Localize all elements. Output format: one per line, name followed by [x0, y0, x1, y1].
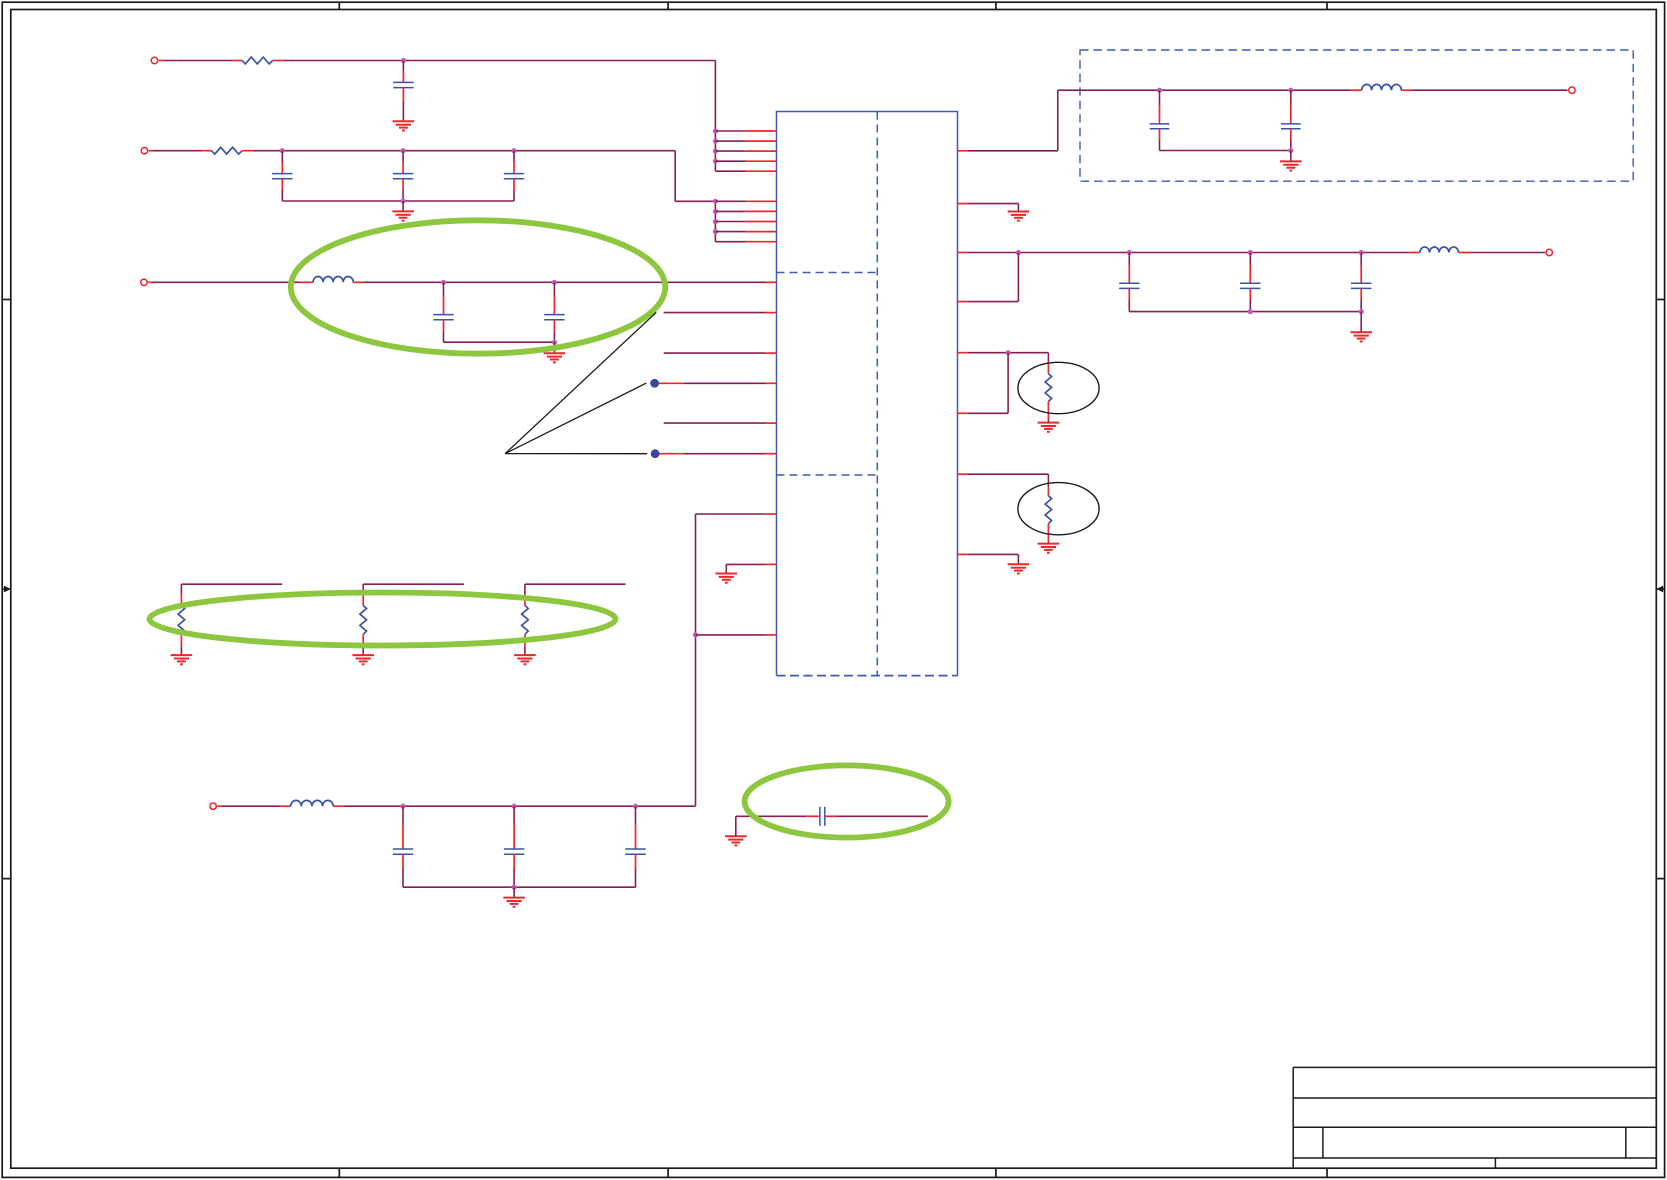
- wire q3 row: [968, 252, 1409, 254]
- wire P1 to R1: [159, 60, 164, 62]
- IC left pin wire F: [696, 513, 766, 515]
- IC left pins group1: [715, 130, 745, 132]
- ground for row2: [402, 201, 404, 211]
- center mark arrow right: [1656, 588, 1664, 590]
- wire L5 to port P5: [1412, 89, 1568, 91]
- node C8 junction: [511, 804, 516, 809]
- IC U1 internal dashed divider horizontal upper: [777, 272, 878, 274]
- ground for q3 rail: [1360, 312, 1362, 333]
- IC U1 outline: [777, 112, 958, 676]
- dashed option box: [1080, 50, 1633, 181]
- wire q1 to dashed box: [968, 150, 1058, 152]
- node C5 junction: [441, 280, 446, 285]
- title block: [1292, 1067, 1294, 1168]
- IC left pin wire H: [696, 634, 766, 636]
- wire P2 to R2: [149, 150, 154, 152]
- row2 ground rail wire: [282, 200, 514, 202]
- wire P3 to L3: [148, 281, 153, 283]
- ground for C1: [393, 120, 415, 122]
- row3 ground rail wire: [444, 341, 555, 343]
- node C11 junction: [1157, 88, 1162, 93]
- node C1 junction: [401, 58, 406, 63]
- IC right pin to ground A: [968, 203, 1018, 205]
- callout ellipse R3: [1018, 362, 1099, 413]
- capacitor C15: [1360, 253, 1362, 266]
- resistor Ra: [178, 605, 185, 634]
- q3 junction d: [1359, 250, 1364, 255]
- callout leader lines: [505, 312, 656, 453]
- IC left pin wire A: [664, 312, 766, 314]
- port P4: [210, 803, 216, 809]
- port P5: [1569, 87, 1575, 93]
- q3 junction a: [1016, 250, 1021, 255]
- port P3: [141, 279, 147, 285]
- resistor Rb: [360, 605, 367, 634]
- wire q6 up to q5: [968, 412, 1008, 414]
- row3 rail junction: [552, 340, 557, 345]
- row2 rail junction: [401, 198, 406, 203]
- q3 junction b: [1127, 250, 1132, 255]
- ground for box filter: [1290, 151, 1292, 162]
- node C2 junction: [280, 148, 285, 153]
- IC right pin to ground B: [968, 553, 1018, 555]
- port P1: [151, 57, 157, 63]
- callout ellipse R4: [1018, 483, 1099, 535]
- capacitor C12: [1290, 90, 1292, 105]
- wire q7: [968, 473, 1048, 475]
- wire R1 to bus corner: [273, 60, 284, 62]
- ground for R3: [1038, 422, 1060, 424]
- capacitor C13: [1128, 253, 1130, 266]
- bus group1 vertical wire: [714, 61, 716, 172]
- highlight ellipse row3 filter: [291, 220, 665, 353]
- q5 junction: [1006, 350, 1011, 355]
- bus group1 junctions: [713, 128, 718, 133]
- capacitor C9: [635, 806, 637, 824]
- node with terminal dot C: [650, 379, 659, 388]
- port P6: [1546, 249, 1552, 255]
- IC U1 bottom edge dashed: [777, 675, 958, 677]
- capacitor C14: [1249, 253, 1251, 266]
- node C6 junction: [552, 280, 557, 285]
- resistor R4 termination: [1047, 474, 1049, 487]
- inductor L3: [313, 276, 353, 282]
- wire q5: [968, 352, 1048, 354]
- capacitor C5: [443, 282, 445, 296]
- wire L4 to vertical: [333, 805, 344, 807]
- ground for series cap: [725, 835, 747, 837]
- box rail junction: [1288, 148, 1293, 153]
- node C12 junction: [1288, 88, 1293, 93]
- capacitor C4: [513, 151, 515, 162]
- capacitor C10 series: [819, 807, 821, 826]
- junction on vertical wire: [693, 632, 698, 637]
- row4 ground rail wire: [403, 886, 636, 888]
- ground for row4: [513, 887, 515, 897]
- resistor Rc: [522, 605, 529, 634]
- capacitor C8: [513, 806, 515, 824]
- inductor L5: [1351, 89, 1362, 91]
- wire R2 to corner: [242, 150, 253, 152]
- wire ground to C10: [736, 815, 807, 817]
- node with terminal dot E: [651, 449, 660, 458]
- wire L3 to IC: [353, 281, 364, 283]
- IC U1 internal dashed divider vertical: [876, 112, 878, 676]
- resistor Rb terminal wire: [363, 583, 464, 585]
- q3 junction c: [1248, 250, 1253, 255]
- capacitor C1: [402, 61, 404, 71]
- resistor R3 termination: [1047, 353, 1049, 362]
- node C3 junction: [401, 148, 406, 153]
- capacitor C7: [402, 806, 404, 824]
- IC right pin stubs: [958, 150, 969, 152]
- capacitor C2: [281, 151, 283, 162]
- capacitor C3: [402, 151, 404, 162]
- node C9 junction: [633, 804, 638, 809]
- port P2: [141, 148, 147, 154]
- resistor R2: [212, 147, 243, 154]
- IC U1 internal dashed divider horizontal lower: [777, 474, 878, 476]
- capacitor C6: [553, 282, 555, 296]
- resistor R1: [242, 57, 273, 64]
- wire L6 to port P6: [1469, 252, 1545, 254]
- inductor L4: [291, 800, 333, 806]
- inductor L6: [1409, 252, 1420, 254]
- q3 rail junction b: [1359, 309, 1364, 314]
- capacitor C11: [1159, 90, 1161, 105]
- wire P4 to L4: [217, 805, 222, 807]
- IC left pin wire G with ground: [726, 563, 766, 565]
- box rail wire: [1160, 150, 1291, 152]
- center mark arrow left: [2, 588, 11, 590]
- node C4 junction: [511, 148, 516, 153]
- node C7 junction: [400, 804, 405, 809]
- bus group2 junctions: [713, 199, 718, 204]
- resistor Ra terminal wire: [181, 583, 282, 585]
- wire row2 to bus group2: [674, 151, 676, 202]
- vertical wire to bottom row: [695, 514, 697, 806]
- IC left pin wire D: [664, 422, 766, 424]
- ground for row3: [553, 342, 555, 353]
- ground for Rb: [352, 654, 374, 656]
- highlight ellipse resistor group: [150, 593, 616, 646]
- ground for Rc: [514, 654, 536, 656]
- ground for Ra: [171, 654, 193, 656]
- q3 rail junction a: [1248, 309, 1253, 314]
- IC left pins group2: [715, 200, 745, 202]
- wire C10 right: [825, 815, 837, 817]
- row4 rail junction: [511, 885, 516, 890]
- IC left pin wire B: [664, 352, 766, 354]
- bus group2 vertical wire: [714, 201, 716, 241]
- IC right pin wire up to q3: [968, 301, 1018, 303]
- ground for R4: [1038, 543, 1060, 545]
- q3 rail wire: [1129, 311, 1361, 313]
- highlight ellipse series cap: [745, 765, 949, 837]
- resistor Rc terminal wire: [525, 583, 626, 585]
